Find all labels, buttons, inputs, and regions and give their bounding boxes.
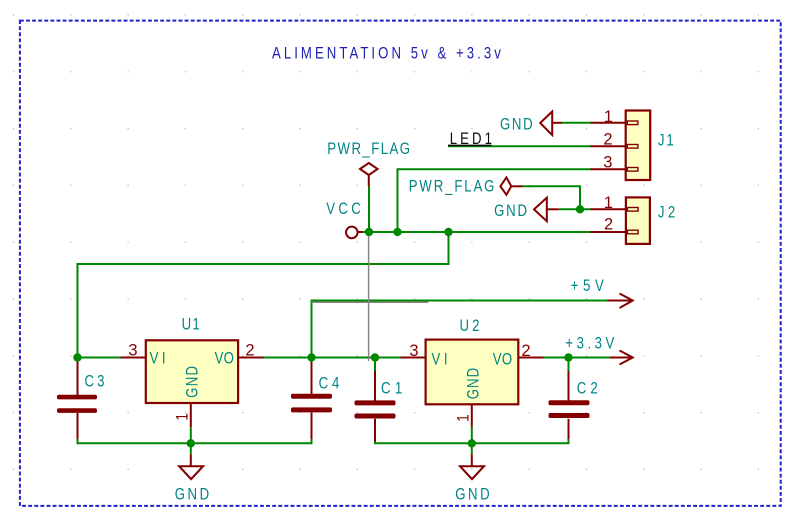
C4 bottom lead [311, 413, 313, 440]
svg-text:3: 3 [128, 341, 137, 359]
VCC stub [359, 231, 363, 233]
C2 top lead [568, 371, 570, 401]
svg-text:2: 2 [521, 342, 530, 360]
junction node 3 [444, 228, 452, 236]
PWR_FLAG1 stem [368, 175, 370, 187]
GND2 stub [547, 208, 559, 210]
PWR_FLAG2 stem [512, 185, 523, 187]
junction node 6 [307, 353, 315, 361]
C1 top lead [374, 371, 376, 401]
wire GND to J2 pin1 [559, 208, 591, 210]
junction node 1 [365, 228, 373, 236]
regulator U1 body [146, 340, 238, 403]
GND3 down-triangle [179, 466, 203, 479]
svg-text:2: 2 [604, 216, 613, 234]
gray line vertical [368, 233, 370, 361]
svg-text:J1: J1 [658, 131, 674, 150]
svg-text:VCC: VCC [326, 200, 361, 219]
C3 top lead [77, 358, 79, 395]
wire U1 gnd vertical [190, 427, 192, 454]
svg-text:GND: GND [464, 368, 483, 400]
svg-text:1: 1 [173, 413, 192, 420]
GND1 stub [552, 122, 562, 124]
wire to J1 pin3 [398, 169, 591, 232]
svg-text:PWR_FLAG: PWR_FLAG [409, 177, 495, 196]
J1 pin2 line [591, 145, 626, 147]
capacitor C1 plates [355, 400, 396, 405]
junction node 9 [187, 439, 195, 447]
svg-text:GND: GND [494, 202, 527, 221]
wire to PWR_FLAG1 [368, 186, 370, 232]
junction node 4 [576, 205, 584, 213]
svg-text:U1: U1 [182, 315, 200, 334]
junction node 5 [73, 353, 81, 361]
wire LED1 to J1 pin2 [448, 145, 591, 147]
VCC circle [346, 227, 358, 239]
svg-text:2: 2 [603, 130, 612, 148]
GND3 lead [190, 454, 192, 466]
PWR_FLAG2 diamond [500, 177, 511, 194]
U2 pin2 line [518, 357, 543, 359]
GND4 down-triangle [460, 466, 484, 479]
svg-text:3: 3 [603, 153, 612, 171]
U2 pin3 line [401, 357, 426, 359]
wire +5V branch [312, 301, 608, 358]
PWR_FLAG1 diamond [360, 163, 378, 175]
wire left gnd rail [78, 439, 312, 443]
GND1 left-triangle [540, 112, 552, 136]
GND4 lead [471, 454, 473, 466]
J1 pin1 line [591, 122, 626, 124]
svg-text:GND: GND [183, 366, 202, 398]
svg-text:GND: GND [175, 485, 209, 504]
C4 top lead [311, 358, 313, 394]
U2 pin1 line [471, 404, 473, 427]
U1 pin1 line [190, 403, 192, 427]
J2 pin2 line [591, 231, 626, 233]
capacitor C4 plates [291, 394, 332, 399]
C2 bottom lead [568, 419, 570, 439]
LED1 underline [448, 144, 492, 146]
wire VI U1 [78, 357, 121, 359]
svg-text:VI: VI [150, 349, 166, 368]
wire VCC rail [361, 231, 591, 233]
U1 pin2 line [238, 357, 264, 359]
connector J2 body [626, 197, 650, 244]
svg-text:1: 1 [604, 108, 613, 126]
GND2 left-triangle [534, 198, 547, 222]
wire VO U2 out [544, 357, 611, 359]
junction node 2 [393, 228, 401, 236]
wire U2 gnd vertical [471, 427, 473, 454]
svg-text:+5V: +5V [571, 277, 604, 296]
wire C2 top [568, 358, 570, 372]
svg-text:GND: GND [500, 115, 533, 134]
svg-text:ALIMENTATION 5v & +3.3v: ALIMENTATION 5v & +3.3v [272, 44, 501, 63]
junction node 8 [564, 353, 572, 361]
junction node 10 [468, 439, 476, 447]
svg-text:2: 2 [245, 341, 254, 359]
svg-text:+3.3V: +3.3V [565, 334, 614, 353]
svg-text:VI: VI [432, 350, 448, 369]
svg-text:3: 3 [409, 342, 418, 360]
wire VCC to VI rail [78, 232, 449, 358]
junction node 7 [371, 353, 379, 361]
wire right gnd rail [375, 439, 569, 443]
wire VO U1 to VI U2 [264, 357, 401, 359]
svg-text:1: 1 [604, 194, 613, 212]
+3.3V arrow [610, 357, 632, 359]
regulator U2 body [426, 340, 519, 405]
+5V arrow [608, 300, 632, 302]
C1 bottom lead [374, 419, 376, 442]
capacitor C3 plates [57, 395, 97, 400]
connector J1 body [626, 111, 651, 181]
svg-text:1: 1 [454, 414, 473, 421]
wire PWR_FLAG2 down [523, 186, 581, 209]
wire GND to J1 pin1 [562, 122, 591, 124]
J2 pin1 line [591, 208, 626, 210]
C3 bottom lead [77, 413, 79, 439]
U1 pin3 line [121, 357, 146, 359]
gray line horizontal [312, 301, 429, 303]
svg-text:VO: VO [493, 350, 512, 369]
capacitor C2 plates [549, 400, 590, 405]
svg-text:PWR_FLAG: PWR_FLAG [327, 139, 410, 158]
svg-text:GND: GND [455, 485, 489, 504]
svg-text:VO: VO [215, 349, 234, 368]
wire C1 top [374, 358, 376, 372]
J1 pin3 line [591, 168, 626, 170]
